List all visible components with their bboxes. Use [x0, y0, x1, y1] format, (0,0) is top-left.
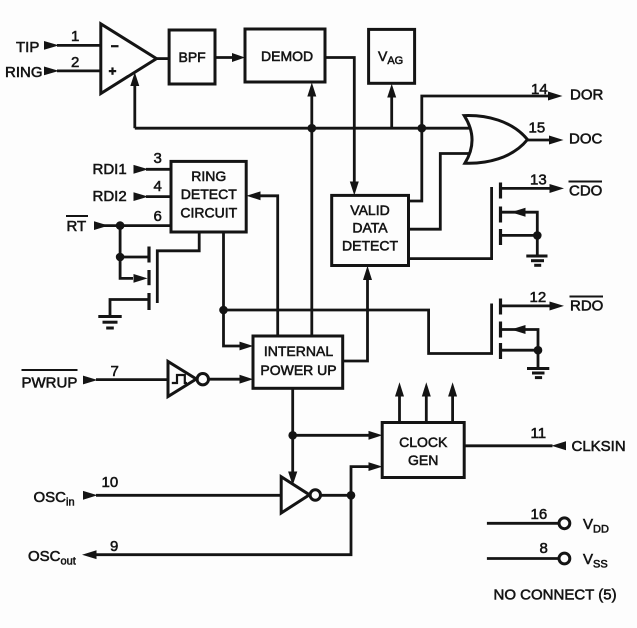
- op-amp minus sign: [111, 45, 119, 47]
- wire node up to CLOCK GEN lower input: [351, 467, 370, 496]
- svg-text:DETECT: DETECT: [342, 238, 398, 254]
- arrow into IPU left upper: [240, 342, 254, 351]
- svg-text:6: 6: [154, 208, 162, 225]
- svg-text:GEN: GEN: [408, 452, 438, 468]
- svg-text:16: 16: [531, 506, 548, 523]
- arrow RDI1: [134, 165, 149, 174]
- svg-text:VSS: VSS: [583, 551, 608, 571]
- svg-text:14: 14: [531, 81, 548, 98]
- wire RING DETECT bottom to node: [222, 232, 225, 310]
- wire node bus to RDO gate: [224, 304, 492, 354]
- arrow down to osc inverter: [288, 472, 297, 486]
- wire CDO body to source: [501, 212, 538, 235]
- wire main feedback bus y=128: [135, 127, 472, 130]
- ground (Q2): [526, 256, 547, 265]
- svg-text:VDD: VDD: [583, 516, 609, 536]
- wire feedback up to op-amp: [133, 85, 136, 128]
- svg-text:DATA: DATA: [352, 220, 388, 236]
- arrow Q1 body: [134, 274, 148, 283]
- wire RT input: [96, 224, 171, 227]
- box DEMOD: [245, 29, 325, 82]
- junction node on feedback bus left: [308, 124, 317, 133]
- svg-text:VALID: VALID: [350, 202, 389, 218]
- wire CLOCK GEN to CLKSIN: [464, 444, 552, 447]
- MOSFET Q2 CDO channel: [499, 183, 502, 246]
- wire node down to VALID right: [409, 128, 422, 201]
- arrow into VALID bottom: [363, 266, 372, 280]
- svg-text:3: 3: [154, 150, 162, 167]
- wire VALID right to CDO gate: [409, 187, 492, 259]
- arrow RDO body: [511, 325, 526, 334]
- MOSFET Q1 RT channel: [147, 247, 150, 311]
- arrow into RING DETECT right: [246, 191, 260, 200]
- svg-text:7: 7: [111, 363, 119, 380]
- wire RT node down: [119, 226, 122, 257]
- wire Q1 source: [110, 300, 149, 317]
- arrow TIP: [44, 41, 59, 50]
- svg-text:BPF: BPF: [179, 49, 206, 65]
- wire node to INTERNAL POWER UP left upper: [224, 310, 242, 346]
- svg-text:TIP: TIP: [16, 39, 39, 56]
- arrow CLOCK GEN top 2: [422, 382, 431, 396]
- pin circle VSS: [559, 553, 570, 564]
- svg-text:PWRUP: PWRUP: [22, 375, 78, 392]
- svg-text:DEMOD: DEMOD: [261, 48, 313, 64]
- svg-text:POWER UP: POWER UP: [260, 362, 336, 378]
- label RING DETECT CIRCUIT: [180, 168, 237, 221]
- arrow into IPU left lower: [240, 375, 254, 384]
- svg-text:RDI1: RDI1: [93, 161, 127, 178]
- wire op-amp output to BPF: [157, 57, 170, 60]
- label PWRUP overline: [22, 369, 78, 371]
- junction node osc out: [347, 491, 356, 500]
- svg-text:RDI2: RDI2: [93, 188, 127, 205]
- op-amp U1: [101, 24, 157, 94]
- svg-text:13: 13: [530, 171, 547, 188]
- wire RDO source to ground: [537, 350, 540, 368]
- wire IPU right to VALID bottom: [343, 280, 368, 361]
- wire VDD lead: [487, 522, 559, 525]
- wire RING input line: [57, 70, 101, 73]
- label RDO overline: [570, 296, 604, 298]
- ground (Q1): [98, 317, 121, 329]
- wire node down to osc inverter: [291, 435, 294, 472]
- inverter U4 oscillator: [281, 477, 309, 513]
- arrow OSC_in: [83, 491, 98, 500]
- arrow CLKSIN (points left): [552, 441, 567, 450]
- arrow PWRUP: [83, 376, 98, 385]
- junction node RT: [116, 221, 125, 230]
- wire CLOCK GEN top arrow stems: [398, 395, 401, 423]
- arrow into VALID top: [350, 182, 359, 196]
- wire OSC_in input: [96, 494, 281, 497]
- label VALID DATA DETECT: [342, 202, 398, 254]
- svg-text:RING: RING: [191, 168, 226, 184]
- arrow RDI2: [134, 192, 149, 201]
- svg-text:9: 9: [110, 538, 118, 555]
- wire node down to OSC_out: [96, 495, 351, 554]
- box VAG: [369, 29, 415, 83]
- wire VAG bottom arrow stem: [390, 97, 393, 128]
- label CLOCK GEN: [399, 434, 448, 468]
- box VALID DATA DETECT: [332, 195, 409, 265]
- box CLOCK GEN: [382, 423, 464, 478]
- junction node RDO source: [534, 346, 543, 355]
- svg-text:1: 1: [71, 28, 79, 45]
- svg-text:INTERNAL: INTERNAL: [264, 343, 333, 359]
- svg-text:11: 11: [531, 425, 547, 442]
- junction node Q1 drain: [116, 253, 125, 262]
- svg-text:8: 8: [540, 540, 548, 557]
- pin circle VDD: [559, 518, 570, 529]
- wire node to INTERNAL POWER UP top: [310, 128, 313, 336]
- box BPF: [169, 30, 215, 84]
- wire Q1 drain: [120, 256, 149, 259]
- wire CDO source to ground: [536, 235, 539, 256]
- arrow into DEMOD bottom: [307, 83, 316, 97]
- svg-text:RT: RT: [67, 218, 87, 235]
- svg-text:DOR: DOR: [570, 87, 604, 104]
- junction node IPU bottom: [288, 431, 297, 440]
- wire RDO drain to pin 12: [501, 304, 551, 307]
- arrow DOC: [549, 136, 564, 145]
- svg-text:12: 12: [530, 289, 547, 306]
- op-amp plus sign: [109, 67, 116, 74]
- junction node on feedback bus right: [418, 124, 427, 133]
- wire DEMOD right to VALID top: [325, 58, 354, 183]
- wire node to DOR: [422, 96, 549, 128]
- wire RDO body to source: [501, 330, 539, 351]
- svg-text:CLOCK: CLOCK: [399, 434, 448, 450]
- wire node to CLOCK GEN upper input: [293, 434, 370, 437]
- wire RDO source: [501, 349, 539, 352]
- wire TIP input line: [57, 44, 101, 47]
- svg-text:DOC: DOC: [569, 131, 603, 148]
- hysteresis glyph in U3: [172, 375, 187, 383]
- svg-text:CIRCUIT: CIRCUIT: [180, 205, 237, 221]
- arrow RDO: [550, 302, 565, 311]
- arrow RT: [94, 221, 109, 230]
- label RT overline: [66, 215, 88, 217]
- svg-text:DETECT: DETECT: [181, 186, 237, 202]
- arrow into VAG bottom: [387, 84, 396, 98]
- svg-text:4: 4: [154, 178, 162, 195]
- svg-text:OSCin: OSCin: [34, 489, 75, 509]
- wire RDI2 input: [146, 195, 171, 198]
- wire CDO drain to pin 13: [501, 187, 551, 190]
- arrow OSC_out: [82, 550, 97, 559]
- wire BPF to DEMOD: [215, 56, 236, 59]
- wire CDO source: [501, 234, 538, 237]
- arrow CDO: [550, 184, 565, 193]
- svg-text:15: 15: [529, 120, 546, 137]
- wire PWRUP input: [96, 378, 168, 381]
- junction node ring-detect bus: [219, 306, 228, 315]
- wire Q1 gate feed from RING DETECT: [157, 231, 199, 303]
- svg-text:OSCout: OSCout: [28, 548, 76, 568]
- arrow feedback into op-amp: [130, 72, 139, 86]
- arrow BPF to DEMOD: [232, 53, 245, 62]
- ground (Q3): [527, 369, 549, 378]
- junction node CDO source: [533, 231, 542, 240]
- wire VALID right to OR lower input: [409, 154, 472, 230]
- wire inverter out to IPU: [209, 378, 242, 381]
- wire Q1 body stem: [120, 257, 133, 278]
- svg-text:2: 2: [71, 54, 79, 71]
- svg-text:10: 10: [102, 474, 119, 491]
- arrow RING: [44, 67, 59, 76]
- wire VSS lead: [487, 557, 559, 560]
- svg-text:RING: RING: [5, 64, 43, 81]
- arrow CLOCK GEN top 1: [395, 382, 404, 396]
- wire osc inverter out to node: [321, 494, 351, 497]
- label INTERNAL POWER UP: [260, 343, 336, 378]
- wire OR output to DOC: [528, 139, 550, 142]
- svg-text:RDO: RDO: [570, 298, 603, 315]
- label CDO overline: [569, 181, 603, 183]
- arrow into CLOCK GEN lower: [369, 462, 383, 471]
- box RING DETECT CIRCUIT: [171, 161, 246, 232]
- svg-text:NO CONNECT (5): NO CONNECT (5): [494, 587, 617, 604]
- svg-text:CDO: CDO: [569, 182, 602, 199]
- wire DEMOD bottom arrow stem: [310, 96, 313, 128]
- wire IPU bottom down: [291, 388, 294, 435]
- MOSFET Q3 RDO channel: [499, 299, 502, 360]
- OR gate U2: [464, 116, 527, 164]
- wire RDI1 input: [146, 168, 171, 171]
- arrow CDO body: [511, 208, 526, 217]
- svg-text:CLKSIN: CLKSIN: [572, 438, 626, 455]
- arrow into CLOCK GEN upper: [369, 431, 383, 440]
- box INTERNAL POWER UP: [253, 336, 343, 388]
- arrow DOR: [548, 92, 563, 101]
- arrow CLOCK GEN top 3: [448, 382, 457, 396]
- inverter U3 PWRUP: [168, 362, 196, 397]
- wire IPU feedback to RING DETECT: [260, 196, 278, 336]
